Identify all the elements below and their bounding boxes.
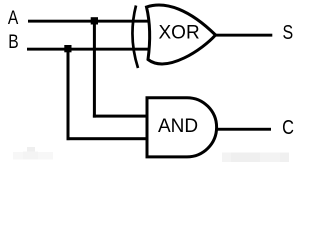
AND output wire <box>216 128 271 131</box>
AND gate U2 body <box>147 98 217 157</box>
wire A horizontal <box>28 20 150 23</box>
svg-text:AND: AND <box>158 116 198 137</box>
svg-text:B: B <box>8 30 18 52</box>
watermark smudge left <box>13 147 53 160</box>
wire B branch horizontal to AND <box>67 137 148 140</box>
XOR gate U1 body <box>147 5 216 64</box>
svg-text:C: C <box>282 115 294 138</box>
watermark bar right <box>222 153 289 163</box>
svg-text:A: A <box>8 6 19 28</box>
junction on wire B <box>64 45 71 52</box>
XOR input arc <box>132 6 138 69</box>
junction on wire A <box>91 17 98 24</box>
wire B branch vertical <box>67 49 70 141</box>
XOR output wire <box>214 34 272 37</box>
svg-text:S: S <box>282 21 293 43</box>
wire A branch horizontal to AND <box>93 115 148 118</box>
svg-text:XOR: XOR <box>159 23 200 44</box>
wire A branch vertical <box>93 21 96 118</box>
wire B horizontal <box>27 48 150 51</box>
